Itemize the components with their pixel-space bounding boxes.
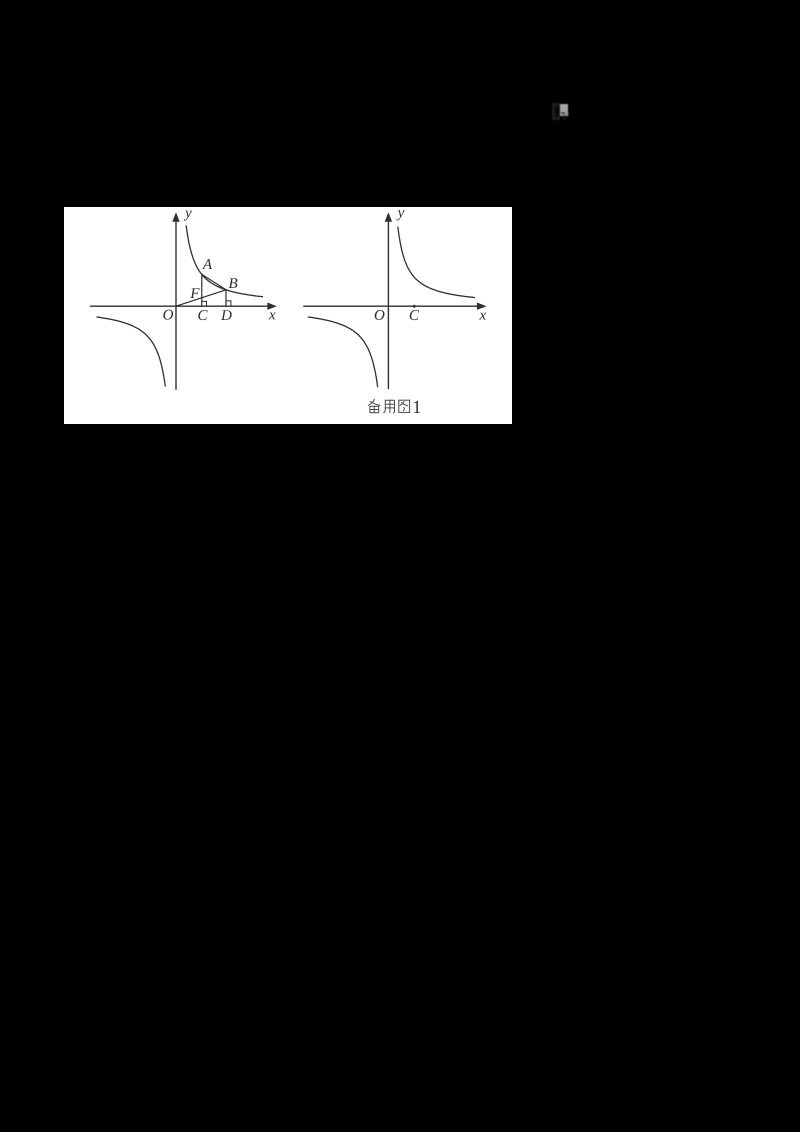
left hyperbola Q3 branch [97,317,165,386]
caption char 用 [384,400,395,413]
left graph x-axis arrowhead [267,303,277,310]
label O left [163,310,173,320]
label y left [184,211,192,221]
label B [229,278,238,288]
right angle mark at D [226,301,231,306]
label A [202,259,212,269]
artifact blob darker stroke [555,106,559,117]
right graph x-axis arrowhead [477,303,487,310]
artifact blob dash [561,112,565,114]
label x left [269,313,276,320]
label x right [479,313,486,320]
left graph y-axis arrowhead [172,212,179,222]
label O right [375,310,385,320]
label F [190,288,199,298]
right angle mark at C [202,301,207,306]
right graph y-axis [387,221,389,389]
caption char 备 [368,399,380,412]
point C dot on right axis [413,305,416,308]
label C right [410,310,419,320]
artifact blob light rect [560,104,568,116]
left hyperbola Q1 branch [186,226,262,297]
right hyperbola Q3 branch [308,317,377,387]
left graph x-axis [91,305,269,307]
artifact blob lower shading [561,113,568,116]
segment BD vertical [225,290,227,306]
chord AB [202,274,226,289]
label C left [198,310,207,320]
caption char 图 [399,400,410,412]
right graph y-axis arrowhead [385,212,392,222]
right graph x-axis [304,305,478,307]
caption digit 1 [414,401,421,413]
right hyperbola Q1 branch [398,227,475,297]
white figure panel [64,207,512,424]
artifact blob notch [562,116,567,120]
left graph y-axis [175,221,177,390]
label D left [221,310,232,320]
line OB [176,290,226,306]
label y right [396,210,404,220]
segment AC vertical [201,274,203,306]
artifact blob dark part [552,103,560,120]
